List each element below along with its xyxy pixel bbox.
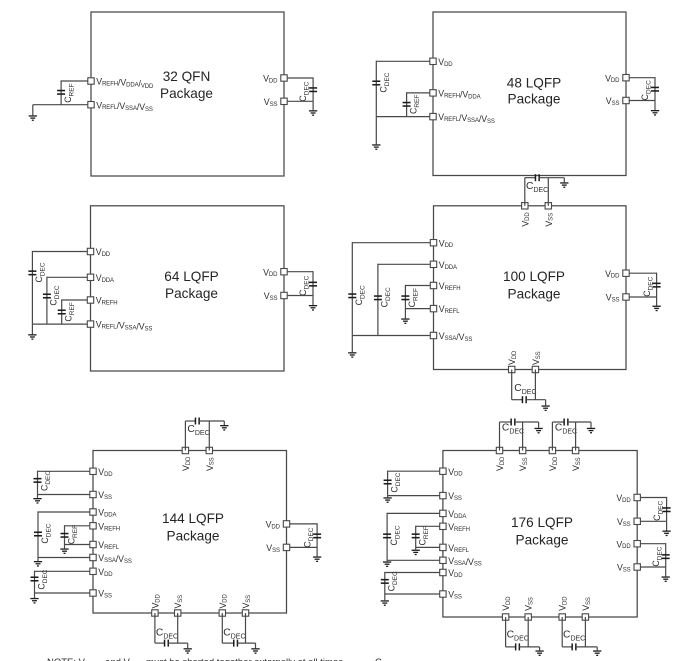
svg-text:Package: Package: [508, 287, 561, 302]
svg-text:CDEC: CDEC: [39, 471, 52, 491]
wire ground stem U4 top: [563, 178, 565, 183]
svg-text:CDEC: CDEC: [34, 262, 47, 282]
pin VDD right (U4): [623, 270, 629, 276]
pin VDDA (U5): [90, 509, 96, 515]
wire U6 VSS bottom1 drop: [527, 617, 529, 647]
wire U3 VREFL bus: [32, 323, 87, 325]
wire U6 VDD top1 riser: [499, 422, 501, 451]
capacitor C_DEC g3 (U5): [31, 576, 39, 581]
wire U5 bottom1 cap right: [168, 642, 187, 644]
svg-text:64 LQFP: 64 LQFP: [164, 269, 218, 284]
pin VSS right (U5): [283, 544, 289, 550]
capacitor C_DEC g2 (U6): [383, 533, 391, 538]
pin VSSA/VSS (U5): [90, 554, 96, 560]
pin VDDA (U4): [430, 261, 436, 267]
ground U3 right: [309, 305, 317, 311]
svg-text:VREFL/VSSA/VSS: VREFL/VSSA/VSS: [96, 100, 153, 113]
wire CREF column U3: [61, 299, 63, 324]
pin VSS top (U5): [206, 447, 212, 453]
wire CDEC g2 column U6: [386, 513, 388, 561]
capacitor C_DEC (U6 top1): [510, 419, 515, 426]
pin VREFL (U5): [90, 541, 96, 547]
wire U5 bottom1 cap left: [155, 642, 165, 644]
capacitor C_DEC (U4 right): [653, 283, 661, 288]
capacitor C_DEC (U1): [309, 87, 317, 92]
wire ground stem U6 VREFL: [415, 547, 417, 549]
wire U6 VDD r2 to CDEC: [640, 543, 665, 545]
svg-text:NOTE: VREFH and VDDA must be s: NOTE: VREFH and VDDA must be shorted tog…: [47, 657, 346, 661]
wire ground stem U3 left: [31, 324, 33, 334]
svg-text:CDEC: CDEC: [526, 181, 548, 194]
ground U5 bottom2: [251, 648, 259, 654]
wire U4 VREFH to CREF: [405, 285, 430, 287]
svg-text:VREFL/VSSA/VSS: VREFL/VSSA/VSS: [438, 112, 495, 125]
wire U4 top cap right: [539, 177, 564, 179]
svg-text:VDD: VDD: [218, 593, 229, 608]
svg-text:VDD: VDD: [605, 269, 620, 280]
wire U5 VSS top riser: [208, 421, 210, 451]
svg-text:VSS: VSS: [98, 589, 112, 600]
svg-text:CREF: CREF: [64, 302, 77, 321]
svg-text:VDDA: VDDA: [448, 509, 466, 520]
svg-text:VDD: VDD: [448, 467, 463, 478]
wire ground stem U6 top2: [590, 422, 592, 428]
svg-text:CDEC: CDEC: [389, 472, 402, 492]
svg-text:CDEC: CDEC: [49, 285, 62, 305]
ground U5 g3: [30, 598, 38, 604]
wire CDEC g3 column U6: [384, 572, 386, 594]
wire U5 VDDA to CDEC: [38, 511, 90, 513]
svg-text:CREF: CREF: [408, 95, 421, 114]
svg-text:VREFL: VREFL: [98, 540, 119, 551]
wire U6 bottom1 cap right: [519, 646, 539, 648]
pin VREFH/VDDA (U2): [430, 90, 436, 96]
ground U5 g1: [33, 498, 41, 504]
capacitor C_DEC (U6 bottom2): [571, 643, 576, 650]
wire CDEC2 column U4: [377, 264, 379, 336]
svg-text:VREFL: VREFL: [448, 543, 469, 554]
svg-text:VSS: VSS: [241, 595, 252, 609]
svg-text:VDD: VDD: [548, 456, 559, 471]
ground U6 top1: [534, 428, 542, 434]
pin VDD (U1): [281, 75, 287, 81]
wire CDEC column U6 r2: [665, 543, 667, 567]
ground U6 r2: [662, 576, 670, 582]
svg-text:VSS: VSS: [531, 351, 542, 365]
wire U5 VDD right to CDEC: [290, 523, 317, 525]
svg-text:VDDA: VDDA: [439, 260, 457, 271]
wire ground stem U5 g3: [34, 593, 36, 598]
wire U5 bottom2 cap right: [238, 642, 256, 644]
capacitor C_DEC (U5 right): [313, 533, 321, 538]
wire ground stem U4 bottom: [545, 400, 547, 406]
wire U4 top cap left: [525, 177, 536, 179]
pin VDD (U5): [90, 468, 96, 474]
pin VDD right (U3): [281, 269, 287, 275]
capacitor C_DEC (U6 bottom1): [515, 643, 520, 650]
svg-text:VDD: VDD: [181, 456, 192, 471]
svg-text:CDEC: CDEC: [187, 424, 209, 437]
pin VREFH (U5): [90, 523, 96, 529]
capacitor C_DEC1 (U4): [348, 293, 356, 298]
capacitor C_DEC g1 (U6): [384, 479, 392, 484]
wire U1 VREFL to ground: [33, 104, 88, 106]
wire CDEC g1 column U5: [37, 471, 39, 495]
wire U5 VSS bottom1 drop: [177, 613, 179, 643]
ground U6 g3: [381, 600, 389, 606]
svg-text:VDD: VDD: [507, 350, 518, 365]
wire CDEC column U2 left: [375, 61, 377, 117]
svg-text:VSS: VSS: [617, 517, 631, 528]
pin VSSA/VSS (U4): [430, 332, 436, 338]
svg-text:VSS: VSS: [448, 590, 462, 601]
svg-text:CDEC: CDEC: [298, 81, 311, 101]
wire U3 VSS right junction: [287, 295, 313, 297]
capacitor C_DEC (U4 bottom): [522, 396, 527, 403]
svg-text:CREF: CREF: [66, 525, 79, 544]
pin VREFH (U3): [87, 297, 93, 303]
wire ground stem U4 right: [656, 297, 658, 306]
svg-text:CDEC: CDEC: [640, 80, 653, 100]
pin VSS bottom2 (U5): [242, 610, 248, 616]
wire CDEC column U3 right: [312, 271, 314, 295]
pin VDD right (U2): [623, 75, 629, 81]
svg-text:32 QFN: 32 QFN: [163, 69, 211, 84]
svg-text:VSS: VSS: [606, 96, 620, 107]
pin VDD (U4): [430, 240, 436, 246]
pin VDD top (U4): [522, 203, 528, 209]
capacitor C_DEC g2 (U5): [34, 531, 42, 536]
wire CREF column U6: [415, 526, 417, 548]
pin VREFL (U6): [440, 544, 446, 550]
wire U6 VSSA bus: [387, 559, 440, 561]
pin VDD (U2): [430, 58, 436, 64]
svg-text:48 LQFP: 48 LQFP: [507, 76, 561, 91]
wire U4 VDD bottom drop: [511, 370, 513, 400]
wire CDEC2 column U3: [46, 277, 48, 324]
wire U1 VDD to CDEC: [287, 77, 313, 79]
pin VDD (U6): [440, 468, 446, 474]
pin VSS2 (U5): [90, 590, 96, 596]
pin VREFL (U4): [430, 305, 436, 311]
wire U6 top2 cap left: [552, 421, 564, 423]
svg-text:VREFH: VREFH: [439, 281, 461, 292]
svg-text:Package: Package: [516, 533, 569, 548]
wire U6 bottom1 cap left: [506, 646, 516, 648]
ground U6 g2: [383, 561, 391, 567]
ground U5 bottom1: [184, 648, 192, 654]
capacitor C_DEC (U3 right): [309, 282, 317, 287]
wire U3 VDDA to CDEC2: [47, 276, 87, 278]
svg-text:VSS: VSS: [581, 597, 592, 611]
pin VDD right (U5): [283, 521, 289, 527]
wire CDEC1 column U4: [351, 242, 353, 335]
wire U6 bottom2 cap left: [562, 646, 572, 648]
svg-text:CDEC: CDEC: [651, 546, 664, 566]
wire ground stem U1 left: [32, 105, 34, 116]
svg-text:VDD: VDD: [616, 493, 631, 504]
wire U4 VREFL bus: [405, 308, 430, 310]
capacitor C_DEC (U4 top): [535, 174, 540, 181]
wire U6 VDD r1 to CDEC: [640, 497, 666, 499]
pin VDDA (U6): [440, 510, 446, 516]
pin VREFH (U6): [440, 523, 446, 529]
wire CDEC column U1: [312, 77, 314, 101]
wire ground stem U5 VREFL: [64, 545, 66, 549]
pin VREFL/VSSA/VSS (U2): [430, 113, 436, 119]
pin VDD bottom1 (U6): [502, 614, 508, 620]
wire U2 VREFL bus: [376, 116, 430, 118]
pin VSS top1 (U6): [519, 447, 525, 453]
svg-text:VSS: VSS: [266, 543, 280, 554]
svg-text:CDEC: CDEC: [302, 527, 315, 547]
wire ground stem U5 g2: [37, 558, 39, 562]
svg-text:CREF: CREF: [418, 526, 431, 545]
wire U3 VDD right to CDEC: [287, 271, 313, 273]
svg-text:CDEC: CDEC: [563, 630, 585, 643]
pin VSS (U6): [440, 492, 446, 498]
pin VDDA (U3): [87, 274, 93, 280]
wire ground stem U2 left: [375, 117, 377, 145]
ground U3 left: [28, 334, 36, 340]
capacitor C_DEC (U2 right): [651, 87, 659, 92]
wire U6 VDD bottom1 drop: [505, 617, 507, 647]
wire ground stem U6 bottom1: [539, 647, 541, 651]
svg-text:VDD: VDD: [616, 539, 631, 550]
ground U5 top: [220, 425, 228, 431]
svg-text:CDEC: CDEC: [298, 275, 311, 295]
svg-text:VDD: VDD: [558, 596, 569, 611]
svg-text:Package: Package: [508, 92, 561, 107]
capacitor C_DEC1 (U3): [28, 270, 36, 275]
capacitor C_DEC (U6 r2): [662, 554, 670, 559]
capacitor C_DEC2 (U4): [374, 295, 382, 300]
pin VDD bottom1 (U5): [152, 610, 158, 616]
capacitor C_REF (U1): [57, 90, 65, 95]
IC U2 48 LQFP package body: [433, 12, 626, 176]
svg-text:144 LQFP: 144 LQFP: [162, 511, 224, 526]
svg-text:CREF: CREF: [407, 288, 420, 307]
wire U5 VSSA bus: [38, 557, 90, 559]
wire ground stem U2 right: [654, 101, 656, 111]
pin VDD top1 (U6): [496, 447, 502, 453]
wire U3 VDD to CDEC1: [32, 251, 87, 253]
wire U6 bottom2 cap right: [576, 646, 597, 648]
svg-text:CDEC: CDEC: [354, 285, 367, 305]
pin VSS right (U4): [623, 294, 629, 300]
ground U5 VREFL: [60, 548, 68, 554]
svg-text:VDD: VDD: [439, 238, 454, 249]
svg-text:VSS: VSS: [544, 213, 555, 227]
wire U5 VSS right junction: [290, 546, 317, 548]
wire ground stem U4 VREFL: [404, 309, 406, 319]
wire U5 VDD bottom2 drop: [221, 613, 223, 643]
svg-text:VSS: VSS: [524, 597, 535, 611]
svg-text:VSSA/VSS: VSSA/VSS: [448, 556, 482, 568]
wire ground stem U6 r1: [666, 521, 668, 530]
svg-text:CDEC: CDEC: [642, 276, 655, 296]
wire U6 VSS top2 riser: [575, 422, 577, 451]
svg-text:VDD: VDD: [96, 247, 111, 258]
wire CDEC g2 column U5: [37, 511, 39, 557]
wire U4 VSS top riser: [547, 178, 549, 206]
svg-text:VSS: VSS: [264, 291, 278, 302]
wire U5 VREFL bus: [65, 544, 90, 546]
wire ground stem U5 bottom2: [255, 643, 257, 648]
svg-text:VDD: VDD: [495, 456, 506, 471]
capacitor C_DEC (U5 top): [195, 418, 200, 425]
wire U4 VDD to CDEC1: [352, 242, 430, 244]
wire ground stem U3 right: [312, 296, 314, 306]
svg-text:VREFH: VREFH: [448, 522, 470, 533]
svg-text:VDD: VDD: [438, 57, 453, 68]
wire ground stem U5 bottom1: [187, 643, 189, 648]
wire U6 VDD g3 to CDEC: [385, 572, 440, 574]
wire ground stem U5 top: [223, 421, 225, 425]
pin VDD (U3): [87, 248, 93, 254]
svg-text:Package: Package: [160, 86, 213, 101]
svg-text:VDD: VDD: [501, 596, 512, 611]
wire U6 VREFH to CREF: [416, 525, 440, 527]
svg-text:VSS: VSS: [617, 563, 631, 574]
wire U6 VDDA to CDEC: [387, 512, 440, 514]
wire CDEC g3 column U5: [34, 571, 36, 593]
svg-text:100 LQFP: 100 LQFP: [503, 269, 565, 284]
svg-text:CDEC: CDEC: [223, 628, 245, 641]
pin VSS bottom1 (U6): [525, 614, 531, 620]
IC U6 176 LQFP package body: [443, 451, 637, 618]
wire CDEC column U6 r1: [666, 497, 668, 521]
svg-text:VDD: VDD: [266, 520, 281, 531]
IC U4 100 LQFP package body: [434, 206, 627, 370]
wire U4 VSSA bus: [352, 335, 430, 337]
capacitor C_DEC (U5 bottom1): [164, 640, 169, 647]
wire U5 VDD g1 to CDEC: [38, 470, 90, 472]
wire U5 VSS g1 junction: [38, 494, 90, 496]
pin VSS right2 (U6): [634, 564, 640, 570]
wire U2 VSS right junction: [629, 100, 655, 102]
pin VREFH (U4): [430, 282, 436, 288]
wire U6 top1 cap right: [515, 421, 539, 423]
svg-text:VREFL: VREFL: [439, 304, 460, 315]
wire CDEC column U2 right: [654, 77, 656, 100]
wire ground stem U6 r2: [665, 567, 667, 576]
svg-text:VSS: VSS: [264, 97, 278, 108]
wire U6 VDD bottom2 drop: [561, 617, 563, 647]
wire U1 VREFH to CREF: [61, 80, 88, 82]
svg-text:VDD: VDD: [150, 593, 161, 608]
pin VDD top2 (U6): [549, 447, 555, 453]
pin VSS top2 (U6): [572, 447, 578, 453]
svg-text:VSS: VSS: [448, 491, 462, 502]
ground U4 left: [348, 352, 356, 358]
svg-text:CDEC: CDEC: [156, 628, 178, 641]
pin VDD top (U5): [182, 447, 188, 453]
wire U6 VDD top2 riser: [551, 422, 553, 451]
wire U5 VSS g3 junction: [35, 592, 90, 594]
wire ground stem U6 g2: [386, 560, 388, 561]
wire U2 VDD to CDEC: [376, 60, 430, 62]
capacitor C_REF (U6): [412, 533, 420, 538]
wire U5 VDD top riser: [184, 421, 186, 451]
svg-text:CDEC: CDEC: [40, 523, 53, 543]
pin VSS (U1): [281, 98, 287, 104]
pin VSSA/VSS (U6): [440, 557, 446, 563]
wire CDEC g1 column U6: [387, 471, 389, 496]
capacitor C_REF (U2): [403, 102, 411, 107]
wire ground stem U6 top1: [538, 422, 540, 428]
wire U5 bottom2 cap left: [222, 642, 233, 644]
IC U1 32 QFN package body: [91, 12, 284, 176]
svg-text:VSS: VSS: [518, 457, 529, 471]
svg-text:176 LQFP: 176 LQFP: [511, 515, 573, 530]
svg-text:Package: Package: [167, 529, 220, 544]
ground U4 top: [560, 182, 568, 188]
wire U5 VSS bottom2 drop: [245, 613, 247, 643]
wire U6 VSS g3 junction: [385, 593, 440, 595]
svg-text:Package: Package: [165, 286, 218, 301]
pin VREFH/VDDA/VDD (U1): [88, 78, 94, 84]
ground U6 g1: [383, 497, 391, 503]
wire U6 VSS r2 junction: [640, 566, 665, 568]
ground U6 bottom2: [593, 650, 601, 656]
pin VDD2 (U5): [90, 568, 96, 574]
ground U4 VREFL: [401, 318, 409, 324]
ground U4 right: [652, 306, 660, 312]
svg-text:VSSA/VSS: VSSA/VSS: [439, 331, 473, 343]
svg-text:VDD: VDD: [98, 567, 113, 578]
svg-text:VSS: VSS: [571, 457, 582, 471]
svg-text:VREFH/VDDA/VDD: VREFH/VDDA/VDD: [96, 77, 154, 91]
capacitor C_REF (U3): [58, 309, 66, 314]
wire ground stem U1 right: [312, 101, 314, 110]
svg-text:VREFH: VREFH: [96, 296, 118, 307]
pin VSS right1 (U6): [634, 518, 640, 524]
svg-text:CDEC: CDEC: [36, 569, 49, 589]
capacitor C_DEC2 (U3): [43, 293, 51, 298]
wire CREF column U5: [64, 525, 66, 544]
capacitor C_DEC (U2 left): [372, 80, 380, 85]
wire ground stem U6 bottom2: [596, 647, 598, 651]
IC U5 144 LQFP package body: [93, 451, 287, 614]
svg-text:CDEC: CDEC: [389, 525, 402, 545]
wire CDEC1 column U3: [31, 251, 33, 324]
wire U5 VREFH to CREF: [65, 525, 90, 527]
svg-text:CDEC: CDEC: [507, 630, 529, 643]
wire ground stem U5 right: [316, 547, 318, 556]
wire U4 VSS bottom drop: [534, 370, 536, 400]
wire U5 VDD bottom1 drop: [154, 613, 156, 643]
wire U4 bottom cap right: [526, 399, 546, 401]
wire U5 VDD g3 to CDEC: [35, 570, 90, 572]
svg-text:VDD: VDD: [263, 74, 278, 85]
ground U4 bottom: [541, 405, 549, 411]
IC U3 64 LQFP package body: [91, 206, 285, 371]
wire U1 VSS to junction: [287, 100, 313, 102]
svg-text:VREFH/VDDA: VREFH/VDDA: [438, 89, 480, 101]
wire U4 bottom cap left: [512, 399, 523, 401]
ground U2 left: [372, 144, 380, 150]
wire ground stem U6 g3: [384, 594, 386, 600]
ground U6 bottom1: [535, 650, 543, 656]
wire U5 top cap left: [185, 420, 195, 422]
wire U2 VDD right to CDEC: [629, 77, 655, 79]
pin VSS bottom2 (U6): [582, 614, 588, 620]
wire U2 VREFH to CREF: [407, 92, 430, 94]
ground U5 g2: [34, 561, 42, 567]
svg-text:VSS: VSS: [98, 490, 112, 501]
svg-text:CDEC: CDEC: [379, 72, 392, 92]
